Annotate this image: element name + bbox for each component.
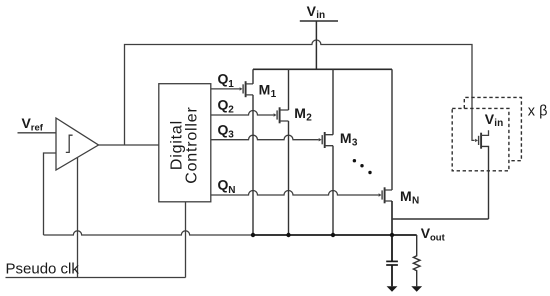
svg-text:3: 3: [352, 137, 358, 148]
capacitor CL: [386, 235, 398, 286]
svg-text:M: M: [259, 81, 271, 97]
wire QN: [211, 191, 379, 196]
wire comparator feedback input: [44, 153, 57, 235]
junction node M3 source: [331, 233, 335, 237]
supply Vin: [300, 3, 338, 70]
svg-text:Q: Q: [218, 97, 229, 113]
svg-text:ref: ref: [31, 123, 44, 134]
wire MN source: [391, 201, 393, 235]
ground capacitor: [387, 286, 398, 292]
wire MN source to beta source: [392, 218, 489, 220]
wire Q3: [211, 135, 319, 140]
transistor beta replica: [475, 130, 488, 219]
junction node output: [390, 233, 394, 237]
svg-text:Controller: Controller: [183, 106, 200, 183]
wire Q2: [211, 111, 274, 116]
ellipsis dots: [353, 159, 372, 174]
op-amp U1 comparator with hysteresis: [56, 118, 99, 170]
svg-text:out: out: [430, 232, 446, 243]
transistor M2: [274, 107, 289, 123]
dashed box front replica: [452, 108, 509, 170]
transistor M1: [240, 81, 253, 97]
label M3: [340, 130, 358, 149]
label Vin replica: [485, 111, 503, 129]
junction node M1 source: [251, 233, 255, 237]
wire pseudo clk: [6, 277, 186, 279]
label Q1: [218, 71, 235, 90]
svg-text:2: 2: [306, 113, 312, 124]
wire M1 drain: [252, 69, 254, 84]
wire comparator clock to pseudo clk: [77, 158, 79, 278]
label Q3: [218, 121, 235, 140]
svg-text:3: 3: [228, 130, 234, 141]
svg-text:in: in: [316, 10, 325, 21]
label M2: [294, 105, 312, 124]
wire Vin top bus: [253, 68, 392, 70]
svg-text:N: N: [228, 185, 235, 196]
svg-text:2: 2: [228, 105, 234, 116]
wire digital controller clock: [185, 202, 187, 278]
wire node A comparator output to beta gate: [125, 40, 475, 145]
svg-text:1: 1: [228, 79, 234, 90]
ground resistor: [411, 286, 422, 292]
svg-text:V: V: [307, 3, 317, 19]
svg-text:M: M: [294, 105, 306, 121]
svg-text:V: V: [485, 111, 495, 127]
wire Vref input: [18, 132, 57, 134]
label MN: [400, 188, 419, 207]
svg-text:Q: Q: [218, 177, 229, 193]
transistor M3: [319, 132, 333, 148]
label M1: [259, 81, 277, 100]
dashed box back replica: [464, 97, 521, 160]
label Vout: [421, 225, 446, 243]
resistor RL: [413, 235, 420, 286]
svg-text:Q: Q: [218, 71, 229, 87]
wire M3 source: [332, 146, 334, 235]
svg-text:N: N: [412, 196, 419, 207]
svg-text:in: in: [494, 118, 503, 129]
label Vref: [22, 115, 44, 133]
svg-text:Pseudo clk: Pseudo clk: [6, 260, 80, 277]
wire Q1: [211, 88, 240, 90]
svg-text:M: M: [340, 130, 352, 146]
digital controller U2: [159, 84, 211, 202]
wire MN drain: [391, 69, 393, 190]
label QN: [218, 177, 236, 196]
svg-text:x β: x β: [528, 103, 548, 119]
wire M2 drain: [288, 69, 290, 110]
svg-text:Q: Q: [218, 121, 229, 137]
junction node M2 source: [286, 233, 290, 237]
wire comparator output: [99, 144, 159, 146]
svg-text:M: M: [400, 188, 412, 204]
wire M1 source: [252, 95, 254, 235]
transistor MN: [379, 187, 392, 203]
wire output bus: [44, 231, 417, 235]
wire M3 drain: [332, 69, 334, 134]
wire M2 source: [288, 121, 290, 235]
svg-text:1: 1: [271, 89, 277, 100]
label Q2: [218, 97, 235, 116]
